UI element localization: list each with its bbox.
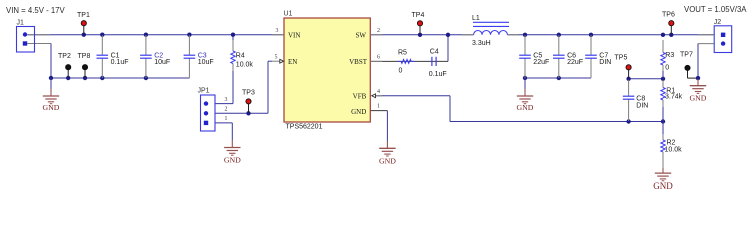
svg-text:1: 1 [377, 104, 380, 110]
svg-text:TP7: TP7 [680, 51, 693, 58]
svg-text:U1: U1 [284, 11, 293, 18]
node C2 top junction [144, 33, 148, 37]
node TP8 junction [83, 76, 87, 80]
svg-text:GND: GND [43, 103, 60, 112]
wire VBST branch horizontal [370, 60, 448, 62]
svg-text:22uF: 22uF [567, 59, 583, 66]
ground (J2 return) [690, 79, 707, 103]
connector J1 [17, 19, 35, 52]
test point TP2 [58, 53, 71, 78]
node TP2 junction [66, 76, 70, 80]
node C3 top junction [187, 33, 191, 37]
svg-text:TPS562201: TPS562201 [286, 123, 323, 130]
node C7 top junction [589, 33, 593, 37]
wire R4 top to VIN rail [232, 35, 234, 40]
svg-text:GND: GND [653, 181, 673, 191]
svg-text:J2: J2 [714, 19, 722, 26]
node TP5/C8 junction [626, 77, 630, 81]
wire VBST branch vertical to SW [447, 35, 449, 62]
node C1 top junction [100, 33, 104, 37]
svg-text:TP6: TP6 [662, 11, 675, 18]
resistor R1 [661, 80, 683, 122]
svg-text:3.3uH: 3.3uH [472, 40, 491, 47]
node R3/R1 junction [661, 77, 665, 81]
wire VOUT rail (L1 to J2) [507, 34, 714, 36]
capacitor C4 [429, 49, 447, 78]
capacitor C2 [140, 35, 170, 78]
svg-text:R2: R2 [667, 139, 676, 146]
connector J2 [714, 19, 732, 53]
wire EN vertical [268, 61, 272, 113]
wire VFB from U1 pin 4 [376, 96, 450, 122]
test point TP6 [662, 11, 675, 34]
svg-text:TP1: TP1 [77, 12, 90, 19]
svg-text:JP1: JP1 [198, 88, 210, 95]
wire J2 pin2 to ground [697, 44, 699, 79]
svg-text:SW: SW [356, 31, 367, 39]
svg-text:10uF: 10uF [154, 59, 170, 66]
node J2 ground junction [696, 76, 700, 80]
svg-text:R3: R3 [665, 52, 674, 59]
svg-text:TP2: TP2 [58, 53, 71, 60]
capacitor C5 [519, 35, 549, 78]
ground (under R2) [653, 167, 673, 191]
svg-text:3: 3 [276, 28, 279, 34]
capacitor C1 [97, 35, 129, 78]
svg-text:2: 2 [225, 107, 228, 113]
svg-text:TP4: TP4 [412, 12, 425, 19]
node C1 bottom junction [100, 76, 104, 80]
svg-text:0: 0 [399, 68, 403, 75]
svg-text:VOUT = 1.05V/3A: VOUT = 1.05V/3A [684, 5, 747, 14]
svg-text:DIN: DIN [636, 103, 648, 110]
svg-text:GND: GND [690, 94, 707, 103]
test point TP3 [242, 89, 255, 113]
svg-text:VBST: VBST [349, 58, 368, 66]
svg-text:TP3: TP3 [242, 89, 255, 96]
svg-text:22uF: 22uF [533, 59, 549, 66]
wire J2 pin2 stub [698, 43, 714, 45]
wire U1 GND pin to ground [370, 111, 387, 141]
svg-text:GND: GND [224, 156, 241, 165]
net label VIN = 4.5V - 17V [6, 6, 66, 15]
svg-text:10.0k: 10.0k [665, 146, 683, 153]
node SW-VBST junction [446, 33, 450, 37]
svg-text:6: 6 [377, 55, 380, 61]
capacitor C7 [585, 35, 611, 78]
svg-text:3: 3 [225, 97, 228, 103]
svg-text:GND: GND [351, 108, 366, 116]
node C8 bottom junction [626, 119, 630, 123]
node R3 top junction [661, 33, 665, 37]
svg-text:TP5: TP5 [615, 55, 628, 62]
svg-text:VIN = 4.5V - 17V: VIN = 4.5V - 17V [6, 6, 66, 15]
wire J1 pin2 stub [27, 43, 51, 45]
wire J1 pin1 stub [27, 34, 50, 36]
svg-text:0.1uF: 0.1uF [111, 59, 129, 66]
net label VOUT = 1.05V/3A [684, 5, 747, 14]
resistor R4 [231, 40, 254, 71]
svg-text:TP8: TP8 [78, 53, 91, 60]
wire JP1 pin1 to ground [215, 123, 232, 140]
node TP6 junction [669, 33, 673, 37]
capacitor C3 [184, 35, 214, 78]
wire EN horizontal to JP1 pin2 [215, 112, 268, 114]
capacitor C8 [623, 80, 649, 121]
wire C7 bottom corner [590, 58, 592, 78]
test point TP7 [680, 51, 693, 78]
op-amp U1 TPS562201 [272, 11, 382, 131]
connector JP1 [198, 88, 228, 132]
wire VFB horizontal to divider [450, 121, 663, 123]
wire J2 pin1 stub [698, 34, 714, 36]
node TP3 junction [246, 111, 250, 115]
wire TP7 to J2 ground node [688, 77, 699, 79]
svg-text:10.0k: 10.0k [236, 61, 254, 68]
svg-text:VFB: VFB [353, 92, 367, 100]
node R4 top junction [231, 33, 235, 37]
svg-text:0.1uF: 0.1uF [429, 71, 447, 78]
wire output ground rail [525, 77, 591, 79]
svg-text:0: 0 [665, 65, 669, 72]
node J1 ground junction [49, 76, 53, 80]
wire JP1 pin3 to R4 [215, 71, 233, 104]
resistor R2 [661, 122, 682, 168]
svg-text:C4: C4 [430, 49, 439, 56]
node C2 bottom junction [144, 76, 148, 80]
svg-text:VIN: VIN [288, 31, 300, 39]
ground (output caps) [517, 78, 534, 112]
svg-text:L1: L1 [472, 15, 480, 22]
resistor R3 [661, 40, 675, 79]
wire J1 pin2 to ground rail [50, 44, 52, 79]
svg-text:J1: J1 [17, 19, 25, 26]
ground (under JP1) [224, 140, 241, 165]
test point TP1 [77, 12, 90, 35]
test point TP5 [615, 55, 632, 79]
node C5 top junction [523, 33, 527, 37]
capacitor C6 [553, 35, 583, 78]
node C6 top junction [557, 33, 561, 37]
svg-text:2: 2 [377, 28, 380, 34]
svg-text:4: 4 [377, 89, 380, 95]
svg-text:R4: R4 [236, 53, 245, 60]
test point TP4 [412, 12, 425, 35]
svg-text:GND: GND [517, 103, 534, 112]
node TP1 junction [82, 33, 86, 37]
ground (U1 GND pin) [379, 141, 396, 166]
svg-text:GND: GND [379, 157, 396, 166]
wire node TP5 to R3/R1 [629, 78, 663, 80]
svg-text:3.74k: 3.74k [665, 94, 683, 101]
node C5 bottom junction [523, 76, 527, 80]
svg-text:5: 5 [275, 54, 278, 60]
svg-text:EN: EN [288, 58, 297, 66]
resistor R5 [398, 50, 414, 75]
svg-text:1: 1 [225, 116, 228, 122]
svg-text:DIN: DIN [599, 59, 611, 66]
node R1/R2 junction [661, 119, 665, 123]
ground (input, under J1) [43, 78, 60, 112]
wire input ground rail [51, 77, 190, 79]
svg-text:R5: R5 [398, 50, 407, 57]
svg-text:10uF: 10uF [198, 59, 214, 66]
test point TP8 [78, 53, 91, 78]
inductor L1 [462, 15, 519, 47]
wire VIN rail (J1 to U1 pin 3) [28, 34, 285, 36]
node C6 bottom junction [557, 76, 561, 80]
node TP4 junction [418, 33, 422, 37]
wire SW rail (U1 pin 2 to L1) [370, 34, 473, 36]
